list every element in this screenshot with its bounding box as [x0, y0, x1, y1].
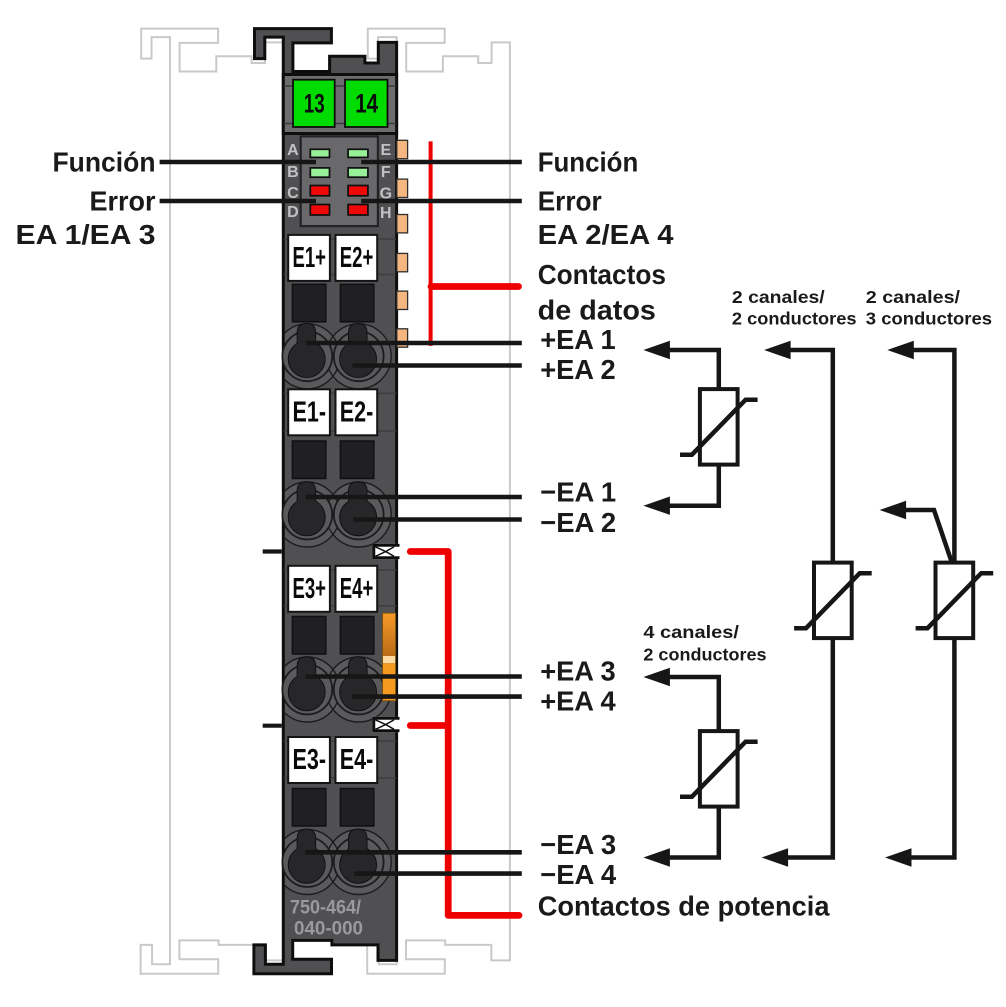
svg-text:E: E: [380, 142, 391, 159]
svg-text:E1+: E1+: [293, 242, 327, 274]
svg-text:750-464/: 750-464/: [290, 897, 362, 919]
svg-text:E4+: E4+: [340, 573, 374, 605]
svg-text:E2-: E2-: [340, 396, 374, 428]
svg-text:Contactos de potencia: Contactos de potencia: [538, 891, 830, 922]
svg-text:2 conductores: 2 conductores: [732, 309, 857, 329]
svg-text:B: B: [287, 164, 299, 181]
svg-text:Error: Error: [538, 186, 602, 217]
svg-text:E3-: E3-: [293, 744, 327, 776]
svg-text:2 conductores: 2 conductores: [643, 644, 766, 664]
svg-text:3 conductores: 3 conductores: [866, 309, 992, 329]
svg-text:de datos: de datos: [538, 294, 656, 325]
svg-text:13: 13: [304, 89, 325, 119]
svg-text:−EA 1: −EA 1: [540, 477, 616, 508]
svg-text:040-000: 040-000: [294, 918, 363, 940]
svg-text:Función: Función: [538, 147, 639, 178]
svg-text:−EA 3: −EA 3: [540, 829, 616, 860]
svg-text:Función: Función: [53, 147, 156, 178]
svg-text:2 canales/: 2 canales/: [866, 287, 960, 307]
svg-text:H: H: [380, 205, 392, 222]
svg-text:Contactos: Contactos: [538, 259, 666, 290]
svg-text:+EA 2: +EA 2: [540, 354, 616, 385]
svg-text:E1-: E1-: [293, 396, 327, 428]
svg-text:−EA 2: −EA 2: [540, 507, 616, 538]
svg-text:+EA 1: +EA 1: [540, 324, 616, 355]
svg-text:14: 14: [355, 89, 378, 119]
svg-text:+EA 3: +EA 3: [540, 656, 616, 687]
svg-text:+EA 4: +EA 4: [540, 686, 616, 717]
svg-text:E2+: E2+: [340, 242, 374, 274]
svg-text:E4-: E4-: [340, 744, 374, 776]
svg-text:A: A: [287, 142, 299, 159]
svg-text:EA 2/EA 4: EA 2/EA 4: [538, 219, 674, 250]
svg-text:Error: Error: [90, 186, 156, 217]
svg-text:EA 1/EA 3: EA 1/EA 3: [16, 219, 156, 250]
svg-text:2 canales/: 2 canales/: [732, 287, 825, 307]
svg-text:D: D: [287, 204, 299, 221]
svg-text:E3+: E3+: [293, 573, 327, 605]
svg-text:4 canales/: 4 canales/: [643, 622, 739, 642]
svg-text:−EA 4: −EA 4: [540, 859, 616, 890]
svg-text:F: F: [381, 164, 391, 181]
